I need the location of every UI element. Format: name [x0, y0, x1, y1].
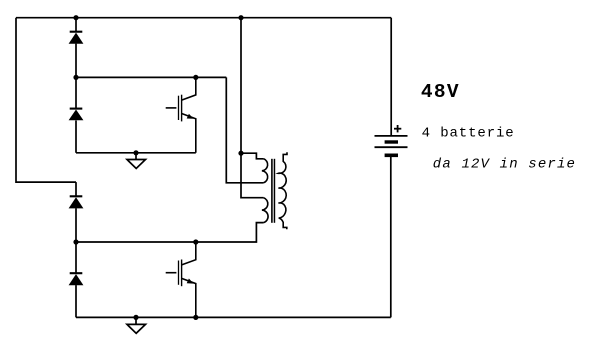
transistor Q1 (IGBT top)	[166, 77, 196, 152]
node C dot	[73, 239, 78, 244]
svg-text:48V: 48V	[421, 81, 460, 103]
wire bottom-cell collector rail y242	[76, 223, 264, 242]
svg-text:4 batterie: 4 batterie	[422, 126, 515, 142]
transformer T1 secondary winding S1	[279, 152, 288, 229]
wire top-cell emitter rail	[76, 152, 196, 154]
diode D4	[69, 273, 84, 285]
node dot top rail center	[238, 15, 243, 20]
ground (top cell)	[127, 153, 146, 169]
transformer T1 core	[272, 159, 275, 223]
wire D4 to bottom rail	[75, 285, 77, 317]
node A dot	[73, 75, 78, 80]
transistor Q2 (IGBT bottom)	[166, 242, 196, 317]
battery plus sign	[394, 125, 401, 132]
diode D3	[69, 196, 84, 208]
node dot top rail left	[73, 15, 78, 20]
wire D3 top segment	[75, 182, 77, 196]
diode D2	[69, 109, 84, 121]
wire right rail to battery top	[390, 18, 392, 136]
transformer T1 primary winding P2	[262, 198, 268, 223]
wire collector rail down to winding P1 bottom	[226, 77, 263, 182]
wire node A to collector rail y77	[76, 76, 226, 78]
wire node A to D2	[75, 77, 77, 108]
node dot Q2 collector	[193, 239, 198, 244]
wire center vertical x241 from top rail	[241, 18, 264, 198]
svg-text:da 12V in serie: da 12V in serie	[433, 157, 576, 173]
wire left rail	[16, 18, 76, 182]
node dot Q1 collector	[193, 75, 198, 80]
wire node C to D4	[75, 242, 77, 273]
wire D3 to node C	[75, 208, 77, 242]
transformer T1 primary winding P1	[262, 159, 268, 183]
ground (bottom cell)	[127, 317, 146, 333]
wire D1 to node A	[75, 44, 77, 78]
node dot top ground	[133, 150, 138, 155]
diode D1	[69, 32, 84, 44]
wire top rail	[16, 17, 391, 19]
node dot Q2 emitter bottom	[193, 315, 198, 320]
wire bottom rail	[76, 316, 391, 318]
wire D1 top segment	[75, 18, 77, 32]
node B dot	[238, 151, 243, 156]
wire node B branch to winding P1 top	[241, 153, 264, 159]
node dot bottom ground	[133, 315, 138, 320]
wire D2 to top-cell emitter rail	[75, 121, 77, 153]
wire battery bottom to bottom rail	[390, 156, 392, 317]
battery BT1	[375, 136, 408, 155]
